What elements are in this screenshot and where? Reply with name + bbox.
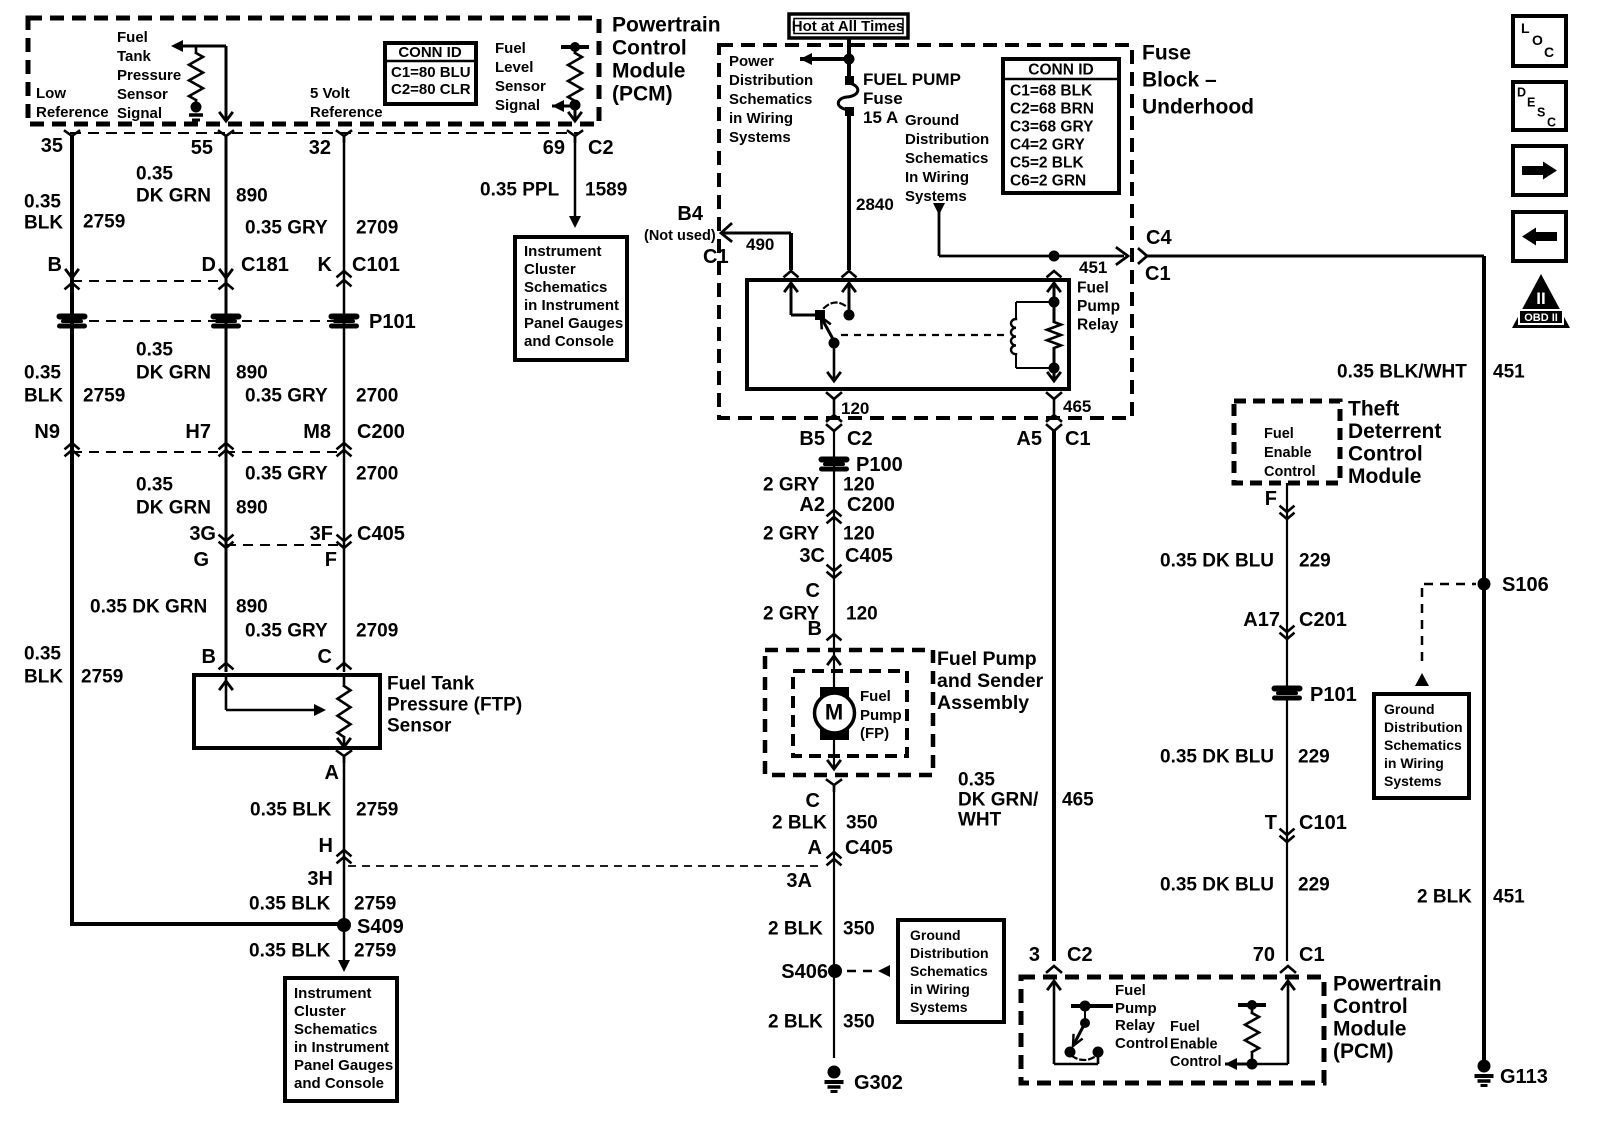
svg-text:B: B	[48, 254, 62, 276]
svg-text:H7: H7	[185, 421, 211, 443]
arrow fuel level sensor signal (left)	[552, 100, 575, 112]
label Fuel Pump and Sender Assembly	[937, 648, 1044, 714]
svg-text:C181: C181	[241, 254, 289, 276]
resistor fuel level sensor	[561, 42, 589, 104]
label Fuel Tank Pressure Sensor Signal	[117, 29, 181, 122]
svg-text:C: C	[1547, 115, 1556, 129]
wire S409 horizontal	[72, 922, 344, 926]
svg-text:in Wiring: in Wiring	[910, 981, 970, 997]
S106 reference dashed arrow	[1415, 584, 1476, 686]
pin B / C181	[48, 254, 79, 289]
pin 55	[191, 131, 233, 159]
label 2 GRY 120 (1)	[763, 475, 875, 496]
svg-text:Sensor: Sensor	[117, 86, 168, 103]
wire 0.35 BLK 2759 (below FTP)	[343, 757, 346, 926]
label 0.35 GRY 2709 (1)	[245, 218, 398, 239]
Ground Distribution ref box (right)	[1374, 694, 1469, 798]
svg-text:2 BLK: 2 BLK	[768, 919, 823, 940]
label 2 BLK 350 (3)	[768, 1012, 875, 1033]
svg-text:C201: C201	[1299, 609, 1347, 631]
svg-text:451: 451	[1493, 362, 1525, 383]
label 0.35 DK GRN 890 (4)	[90, 597, 268, 618]
label 0.35 DK BLU 229 (1)	[1160, 551, 1331, 572]
svg-text:Systems: Systems	[1384, 773, 1442, 789]
label Fuel Tank Pressure (FTP) Sensor	[387, 674, 522, 737]
wire to instrument cluster (left)	[338, 926, 350, 972]
svg-text:in Instrument: in Instrument	[294, 1039, 389, 1056]
svg-text:S: S	[1537, 105, 1545, 119]
S406 reference dashed arrow	[847, 965, 890, 977]
svg-text:2700: 2700	[356, 464, 398, 485]
pin A5 / C1	[1016, 428, 1090, 450]
svg-text:465: 465	[1062, 790, 1094, 811]
resistor relay parallel	[1047, 302, 1061, 368]
connector link 3H-3A	[348, 865, 818, 867]
label 0.35 BLK 2759 (5)	[249, 894, 396, 915]
Fuel Pump Relay box	[747, 280, 1069, 389]
svg-text:451: 451	[1493, 887, 1525, 908]
svg-text:O: O	[1532, 32, 1543, 48]
svg-text:M8: M8	[303, 421, 331, 443]
svg-text:Control: Control	[1115, 1035, 1168, 1052]
svg-text:B4: B4	[677, 203, 703, 225]
pin F theft	[1265, 488, 1294, 519]
label Fuse Block - Underhood	[1142, 41, 1254, 118]
svg-text:CONN ID: CONN ID	[1028, 61, 1093, 78]
Hot at All Times box	[789, 14, 908, 38]
relay output wire internal	[828, 343, 840, 381]
svg-text:C4: C4	[1146, 227, 1172, 249]
pin 70 / C1 PCM	[1253, 944, 1325, 972]
svg-text:Relay: Relay	[1115, 1017, 1156, 1034]
svg-text:Ground: Ground	[910, 927, 961, 943]
pin 69 / C2	[543, 131, 614, 159]
relay output 465 exit marks	[1047, 393, 1091, 431]
label 0.35 GRY 2700 (2)	[245, 464, 398, 485]
svg-text:C6=2 GRN: C6=2 GRN	[1010, 172, 1086, 189]
relay pin 2840 internal	[843, 283, 855, 313]
svg-text:Panel Gauges: Panel Gauges	[294, 1057, 393, 1074]
wire 2 GRY 120 (1)	[833, 431, 835, 650]
svg-text:Relay: Relay	[1077, 316, 1119, 333]
motor fuel pump FP	[815, 687, 855, 740]
wire into fuel pump	[828, 652, 840, 690]
label 2 GRY 120 (2)	[763, 524, 875, 545]
svg-text:Ground: Ground	[905, 112, 959, 129]
svg-text:Pump: Pump	[1077, 298, 1120, 315]
svg-text:DK GRN: DK GRN	[136, 363, 211, 384]
svg-text:35: 35	[41, 135, 63, 157]
svg-text:F: F	[1265, 488, 1277, 510]
pin C (1)	[806, 580, 820, 602]
svg-text:S409: S409	[357, 916, 404, 938]
svg-text:Fuse: Fuse	[1142, 41, 1191, 64]
svg-text:32: 32	[309, 137, 331, 159]
svg-text:F: F	[325, 549, 337, 571]
ground G302	[825, 1066, 903, 1095]
svg-text:C: C	[318, 646, 332, 668]
svg-text:C2=80 CLR: C2=80 CLR	[391, 81, 471, 98]
label 0.35 BLK 2759 (2)	[24, 363, 125, 407]
resistor fuel enable	[1238, 1000, 1266, 1064]
label Fuel Pump (FP)	[860, 688, 902, 742]
grommet P101 wire1	[57, 314, 87, 329]
svg-text:350: 350	[843, 1012, 875, 1033]
connector line C405 (left)	[226, 544, 344, 546]
svg-text:0.35: 0.35	[24, 644, 61, 665]
label 2 GRY 120 (3)	[763, 604, 878, 625]
relay pin 490 internal	[785, 283, 816, 315]
svg-text:Schematics: Schematics	[905, 150, 988, 167]
label FUEL PUMP Fuse 15 A	[863, 70, 961, 127]
relay coil top dot	[1049, 297, 1060, 308]
svg-text:C405: C405	[357, 523, 405, 545]
svg-text:(FP): (FP)	[860, 725, 889, 742]
label Fuel Level Sensor Signal	[495, 40, 546, 114]
svg-text:A5: A5	[1016, 428, 1042, 450]
label 2 BLK 350 (1)	[772, 813, 878, 834]
svg-text:890: 890	[236, 186, 268, 207]
junction dot 451	[1049, 251, 1060, 262]
label 0.35 BLK/WHT 451	[1337, 362, 1525, 383]
relay switch output dot	[829, 338, 840, 349]
label Fuel Enable Control (PCM)	[1170, 1019, 1222, 1070]
svg-text:and Sender: and Sender	[937, 670, 1044, 692]
label Theft Deterrent Control Module	[1348, 397, 1441, 488]
junction dot fuel level sensor	[570, 100, 581, 111]
svg-text:Pressure (FTP): Pressure (FTP)	[387, 695, 522, 716]
label Powertrain Control Module (PCM) bottom-right	[1333, 972, 1442, 1062]
fuel enable bottom dot	[1247, 1059, 1258, 1070]
svg-text:0.35 DK BLU: 0.35 DK BLU	[1160, 875, 1274, 896]
Instrument Cluster ref box (top)	[515, 237, 627, 360]
svg-text:and Console: and Console	[294, 1075, 384, 1092]
relay pin 465 internal	[1048, 368, 1060, 381]
wire 0.35 BLK/WHT 451	[1482, 256, 1486, 1066]
relay linkage dashed	[841, 334, 1008, 336]
svg-text:Instrument: Instrument	[294, 985, 372, 1002]
label 451 (top)	[1079, 258, 1107, 277]
label P101 (left)	[369, 311, 416, 333]
pin C FTP	[318, 646, 351, 669]
svg-text:in Wiring: in Wiring	[1384, 755, 1444, 771]
fuel pump inner dashed box	[793, 671, 907, 756]
svg-text:Panel Gauges: Panel Gauges	[524, 315, 623, 332]
svg-text:Deterrent: Deterrent	[1348, 420, 1441, 443]
wire fuse feed	[847, 38, 851, 80]
label Fuel Pump Relay	[1077, 279, 1120, 333]
svg-text:and Console: and Console	[524, 333, 614, 350]
svg-text:0.35: 0.35	[958, 770, 995, 791]
label 2 BLK 350 (2)	[768, 919, 875, 940]
svg-text:451: 451	[1079, 258, 1107, 277]
svg-text:C: C	[1544, 44, 1554, 60]
svg-text:0.35: 0.35	[136, 340, 173, 361]
label 0.35 DK GRN/WHT 465	[958, 770, 1094, 831]
relay switch blade	[821, 317, 834, 341]
svg-text:229: 229	[1299, 551, 1331, 572]
svg-text:C2: C2	[588, 137, 614, 159]
svg-text:120: 120	[843, 475, 875, 496]
svg-text:Schematics: Schematics	[1384, 737, 1462, 753]
label 3H	[307, 868, 333, 890]
pin K / C101	[318, 254, 400, 286]
svg-text:C1: C1	[1145, 263, 1171, 285]
svg-text:G113: G113	[1500, 1066, 1548, 1088]
icon LOC	[1513, 16, 1566, 66]
wire 0.35 GRY 2709 (top)	[343, 136, 346, 672]
svg-text:Cluster: Cluster	[524, 261, 576, 278]
label Power Distribution Schematics in Wiring Systems	[729, 53, 813, 146]
label Ground Distribution Schematics In Wiring Systems (top)	[905, 112, 989, 205]
svg-text:Fuel Pump: Fuel Pump	[937, 648, 1037, 670]
svg-text:Assembly: Assembly	[937, 692, 1029, 714]
svg-text:C2: C2	[847, 428, 873, 450]
grommet P101 wire3	[329, 314, 359, 329]
pin H7 / C200	[185, 421, 232, 456]
junction dot fuse feed	[844, 54, 855, 65]
svg-text:Block –: Block –	[1142, 68, 1217, 91]
grommet P101 wire2	[211, 314, 241, 329]
svg-text:WHT: WHT	[958, 810, 1002, 831]
splice S409	[337, 916, 404, 938]
svg-text:3F: 3F	[310, 523, 333, 545]
svg-text:C4=2 GRY: C4=2 GRY	[1010, 136, 1085, 153]
label 0.35 GRY 2709 (2)	[245, 621, 398, 642]
svg-text:Distribution: Distribution	[729, 72, 813, 89]
svg-text:C1=80 BLU: C1=80 BLU	[391, 64, 471, 81]
svg-text:Module: Module	[1333, 1017, 1407, 1040]
svg-text:C200: C200	[847, 494, 895, 516]
svg-text:C2=68 BRN: C2=68 BRN	[1010, 100, 1094, 117]
FTP wiper circuit	[220, 677, 320, 710]
svg-text:(PCM): (PCM)	[612, 82, 673, 105]
Fuse Block dashed box	[719, 45, 1132, 418]
svg-text:2 BLK: 2 BLK	[768, 1012, 823, 1033]
svg-text:in Wiring: in Wiring	[729, 110, 793, 127]
relay coil	[1011, 302, 1054, 368]
svg-text:2 GRY: 2 GRY	[763, 524, 820, 545]
svg-text:2759: 2759	[83, 212, 125, 233]
svg-text:Systems: Systems	[729, 129, 791, 146]
svg-text:0.35 GRY: 0.35 GRY	[245, 464, 328, 485]
svg-text:Level: Level	[495, 59, 533, 76]
svg-text:Pressure: Pressure	[117, 67, 181, 84]
wire 2 BLK 350 (1)	[833, 786, 835, 1058]
pin G	[193, 549, 209, 571]
svg-text:K: K	[318, 254, 333, 276]
svg-text:Fuse: Fuse	[863, 89, 903, 108]
svg-text:A17: A17	[1243, 609, 1280, 631]
label 5 Volt Reference	[310, 85, 383, 121]
pin 32	[309, 131, 351, 159]
svg-text:0.35 BLK: 0.35 BLK	[250, 800, 332, 821]
svg-text:E: E	[1527, 95, 1535, 109]
svg-text:C1: C1	[1299, 944, 1325, 966]
icon arrow left	[1513, 212, 1566, 261]
svg-text:P101: P101	[1310, 684, 1357, 706]
splice S106	[1478, 574, 1549, 596]
wire pin 69 internal	[569, 105, 581, 121]
relay coil bottom dot	[1049, 363, 1060, 374]
svg-text:P101: P101	[369, 311, 416, 333]
icon DESC	[1513, 82, 1566, 130]
label 0.35 PPL 1589	[480, 180, 627, 201]
label 0.35 DK GRN 890 (2)	[136, 340, 268, 384]
pin A / C405 splice link	[808, 837, 893, 865]
svg-text:0.35 BLK/WHT: 0.35 BLK/WHT	[1337, 362, 1467, 383]
ground symbol inside PCM	[189, 115, 203, 120]
arrow FTP sensor signal (left)	[171, 40, 183, 52]
fuel pump relay control switch contact top	[1071, 1001, 1113, 1012]
svg-text:490: 490	[746, 235, 774, 254]
svg-text:5 Volt: 5 Volt	[310, 85, 350, 102]
label 0.35 BLK 2759 (3)	[24, 644, 123, 688]
svg-text:S106: S106	[1502, 574, 1549, 596]
pin B5 / C2	[799, 428, 872, 450]
svg-text:Reference: Reference	[310, 104, 383, 121]
CONN ID table (PCM)	[385, 43, 476, 104]
grommet P100	[819, 454, 903, 476]
svg-text:0.35: 0.35	[136, 475, 173, 496]
CONN ID table (fuse block)	[1003, 59, 1119, 193]
svg-text:2 GRY: 2 GRY	[763, 475, 820, 496]
svg-text:DK GRN: DK GRN	[136, 186, 211, 207]
svg-text:Signal: Signal	[495, 97, 540, 114]
svg-text:2840: 2840	[856, 195, 894, 214]
svg-text:2700: 2700	[356, 386, 398, 407]
svg-text:M: M	[825, 700, 843, 725]
svg-text:2759: 2759	[354, 941, 396, 962]
svg-text:0.35 DK GRN: 0.35 DK GRN	[90, 597, 207, 618]
svg-text:Power: Power	[729, 53, 774, 70]
svg-text:BLK: BLK	[24, 386, 63, 407]
svg-text:Underhood: Underhood	[1142, 95, 1254, 118]
label Fuel Pump Relay Control	[1115, 982, 1168, 1052]
svg-text:Sensor: Sensor	[495, 78, 546, 95]
svg-text:15 A: 15 A	[863, 108, 898, 127]
svg-text:0.35 BLK: 0.35 BLK	[249, 894, 331, 915]
svg-text:0.35: 0.35	[136, 164, 173, 185]
label 0.35 DK BLU 229 (2)	[1160, 747, 1330, 768]
wire 0.35 DK GRN 890	[225, 136, 228, 672]
svg-text:Pump: Pump	[1115, 1000, 1157, 1017]
svg-text:B: B	[202, 646, 216, 668]
pin A17 / C201	[1243, 609, 1347, 639]
pin B fuel pump	[808, 618, 841, 640]
svg-text:0.35 PPL: 0.35 PPL	[480, 180, 560, 201]
Instrument Cluster ref box (bottom)	[285, 978, 397, 1101]
label Fuel Enable Control (theft)	[1264, 426, 1316, 480]
label 0.35 BLK 2759 (6)	[249, 941, 396, 962]
PCM (bottom-right) dashed module box	[1021, 977, 1324, 1083]
svg-text:Hot at All Times: Hot at All Times	[792, 18, 905, 35]
svg-text:DK GRN: DK GRN	[136, 498, 211, 519]
svg-text:890: 890	[236, 363, 268, 384]
svg-text:Cluster: Cluster	[294, 1003, 346, 1020]
arrow power distribution (left)	[800, 53, 849, 65]
fuse FUEL PUMP 15A	[838, 76, 858, 116]
svg-text:2759: 2759	[83, 386, 125, 407]
wire 0.35 DK BLU 229 (2)	[1286, 698, 1288, 961]
svg-text:Tank: Tank	[117, 48, 152, 65]
pin H splice link	[319, 835, 351, 863]
svg-text:Ground: Ground	[1384, 701, 1435, 717]
svg-text:C5=2 BLK: C5=2 BLK	[1010, 154, 1084, 171]
pin N9 / C200	[34, 421, 78, 456]
connector line C181	[72, 280, 226, 282]
Ground Distribution ref box (middle)	[898, 920, 1004, 1022]
svg-text:T: T	[1265, 812, 1277, 834]
PCM connector line C1/C2	[70, 132, 578, 134]
svg-text:C101: C101	[1299, 812, 1347, 834]
svg-text:DK GRN/: DK GRN/	[958, 790, 1039, 811]
label 0.35 BLK 2759 (4)	[250, 800, 398, 821]
svg-text:BLK: BLK	[24, 667, 63, 688]
svg-text:229: 229	[1298, 875, 1330, 896]
svg-text:Powertrain: Powertrain	[1333, 972, 1442, 995]
PCM pin 3 internal	[1048, 981, 1098, 1064]
svg-text:FUEL PUMP: FUEL PUMP	[863, 70, 961, 89]
svg-text:Systems: Systems	[905, 188, 967, 205]
icon OBD II triangle	[1512, 274, 1570, 328]
svg-text:3: 3	[1029, 944, 1040, 966]
svg-text:3A: 3A	[786, 870, 812, 892]
svg-text:2 BLK: 2 BLK	[1417, 887, 1472, 908]
connector C4/C1 fuse block	[1139, 227, 1484, 285]
svg-text:A: A	[325, 762, 339, 784]
svg-text:2709: 2709	[356, 218, 398, 239]
pin B4 not used	[644, 203, 798, 277]
svg-text:55: 55	[191, 137, 213, 159]
wire 0.35 DK BLU 229 (1)	[1286, 483, 1288, 688]
label 0.35 BLK 2759 (1)	[24, 192, 125, 234]
svg-text:B: B	[808, 618, 822, 640]
svg-text:Enable: Enable	[1170, 1037, 1218, 1053]
svg-text:2759: 2759	[81, 667, 123, 688]
svg-text:Fuel: Fuel	[1115, 982, 1146, 999]
relay output 120 exit marks	[827, 393, 869, 431]
wire 0.35 PPL 1589	[569, 136, 581, 228]
svg-text:0.35: 0.35	[24, 363, 61, 384]
label 3A	[786, 870, 812, 892]
svg-text:C101: C101	[352, 254, 400, 276]
svg-text:0.35 GRY: 0.35 GRY	[245, 218, 328, 239]
svg-text:Pump: Pump	[860, 707, 902, 724]
svg-text:120: 120	[843, 524, 875, 545]
svg-text:B5: B5	[799, 428, 825, 450]
FTP wiper arrow	[314, 704, 326, 716]
pin 3G / C405	[189, 523, 232, 548]
svg-text:C405: C405	[845, 837, 893, 859]
pin D / C181	[202, 254, 289, 289]
wire 0.35 BLK 2759 (left)	[70, 136, 74, 926]
svg-text:C3=68 GRY: C3=68 GRY	[1010, 118, 1094, 135]
svg-text:C1: C1	[703, 246, 729, 268]
label Powertrain Control Module (PCM) top-left	[612, 13, 721, 105]
svg-text:A: A	[808, 837, 822, 859]
svg-text:0.35: 0.35	[24, 192, 61, 213]
svg-text:Fuel: Fuel	[495, 40, 526, 57]
svg-text:1589: 1589	[585, 180, 627, 201]
svg-text:Fuel: Fuel	[117, 29, 148, 46]
svg-text:Control: Control	[1264, 464, 1316, 480]
svg-text:A2: A2	[799, 494, 825, 516]
fuel pump relay control dots	[1065, 1047, 1104, 1058]
svg-text:Fuel Tank: Fuel Tank	[387, 674, 475, 695]
pin 35	[41, 131, 79, 157]
svg-text:C2: C2	[1067, 944, 1093, 966]
